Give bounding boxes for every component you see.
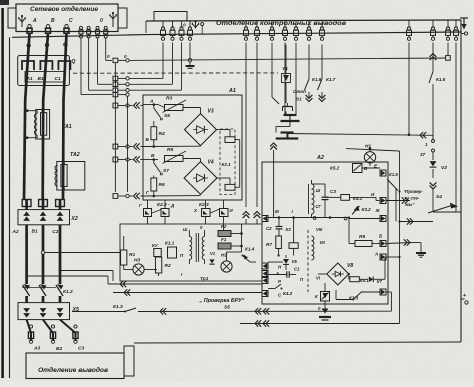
wire terminal 409 drop xyxy=(408,43,410,135)
A1 feed row А xyxy=(113,103,118,108)
switch К1.8 (left) xyxy=(308,45,310,80)
down-arrow terminal at top right edge xyxy=(463,18,465,28)
neutral link row y=84.3 xyxy=(113,82,118,86)
wire phase B X2->K1.2 xyxy=(42,225,45,284)
output compartment box (Отделение выводов) xyxy=(26,353,124,379)
block A2 outline xyxy=(262,162,388,304)
relay contact block К2.1 (dashed) xyxy=(220,129,235,195)
wire: outer frame bottom border xyxy=(134,342,461,343)
junction circle on phase B xyxy=(41,251,44,254)
resistor R3 xyxy=(165,105,184,111)
wire: outer frame top bus (root of control area) xyxy=(146,20,461,21)
control terminal 1-2 xyxy=(172,21,174,28)
chevron to М line xyxy=(273,150,275,162)
wire: outer frame right border xyxy=(460,20,462,342)
transformer Тр1 xyxy=(189,237,191,260)
resistor R6 xyxy=(153,176,155,179)
arrester right in net box xyxy=(112,12,114,14)
terminal phase C xyxy=(65,25,68,28)
wire H1/K1.5 net xyxy=(395,188,397,222)
switch К1.7 xyxy=(321,45,323,80)
wire taps to test block xyxy=(45,252,120,254)
wires A2 right side to riser xyxy=(386,256,400,258)
control terminal 2-4 xyxy=(284,21,286,28)
transformer TA1 xyxy=(36,110,50,140)
switch S7 xyxy=(153,160,155,164)
control terminal 3-3 xyxy=(447,20,449,28)
terminal block X2 xyxy=(18,210,70,225)
button КУ xyxy=(154,249,161,257)
transformer TA2 xyxy=(57,162,85,191)
fuse F2 xyxy=(218,231,231,237)
A1 feed row Б xyxy=(113,144,118,149)
transformer II winding xyxy=(312,236,314,260)
arrester F left in net box xyxy=(21,15,23,17)
fuse label box xyxy=(25,72,65,83)
wire: top bus raised tab xyxy=(154,12,187,22)
resistor R1 xyxy=(121,250,127,265)
net compartment box (Сетевое отделение) xyxy=(16,4,118,32)
control terminal 2-5 xyxy=(295,21,297,28)
wire terminal 456 down to S4 xyxy=(455,43,457,213)
neutral link row y=60.4 xyxy=(113,58,118,62)
terminal phase A xyxy=(28,25,31,28)
right mounting tab xyxy=(118,8,127,28)
wire R9 to ground xyxy=(386,243,412,244)
wire phase A X2->K1.2 xyxy=(25,225,28,284)
test block outline xyxy=(120,224,262,281)
fuse block outline xyxy=(18,56,70,86)
neutral link row y=78.4 xyxy=(113,76,118,80)
fuse element xyxy=(40,61,52,70)
button S1 xyxy=(285,83,287,104)
lamp H3 xyxy=(133,264,144,275)
contact K2.1 lower xyxy=(225,184,235,190)
bridge rectifier V3 xyxy=(185,114,217,146)
terminal block X5 xyxy=(18,303,70,320)
relay К5.1 xyxy=(348,273,350,275)
A1 feed row Г xyxy=(113,194,118,199)
contact K2.1 upper xyxy=(225,137,235,143)
control terminal 3-2 xyxy=(432,20,434,28)
terminal phase B xyxy=(46,25,49,28)
resistor R7 xyxy=(276,236,282,249)
connector М row xyxy=(262,216,268,222)
wire contacts to riser xyxy=(235,139,240,141)
resistor R2 xyxy=(155,257,161,273)
wire phase A vertical xyxy=(24,33,30,200)
neutral terminal 3 xyxy=(96,26,99,29)
control terminal 1-4 xyxy=(189,21,191,28)
bus wire y=284 xyxy=(108,283,262,285)
resistor R4 xyxy=(153,121,155,127)
node line y=217.5 xyxy=(268,217,349,219)
relay К3 coil xyxy=(289,243,298,249)
block A1 outline xyxy=(143,95,242,200)
scan edge artifact left xyxy=(1,8,4,378)
output wire xyxy=(60,320,76,341)
neutral terminal 2 xyxy=(87,26,90,29)
scan artifact top-left corner xyxy=(0,0,9,5)
wire: compartment boundary full-width bus xyxy=(12,32,461,37)
wire phase C X2->K1.2 xyxy=(59,225,62,284)
contactor K1.2 xyxy=(23,284,30,290)
control terminal 2-3 xyxy=(271,21,273,28)
wire: outer frame left border xyxy=(9,37,11,378)
fuse F1 xyxy=(218,243,231,249)
control terminal 2-1 xyxy=(245,21,247,28)
ground under А2 xyxy=(324,301,326,312)
bus wire K1.3 y=311 xyxy=(72,311,125,313)
plus output terminal xyxy=(461,298,465,300)
wire phase B vertical xyxy=(43,33,48,200)
left mounting tab xyxy=(8,8,16,28)
neutral vertical bus pair xyxy=(114,63,116,192)
resistor R5 xyxy=(143,159,158,161)
control terminal bus xyxy=(145,21,147,33)
output wire xyxy=(27,320,31,341)
wire V7 up to row А xyxy=(384,257,386,279)
fuse element xyxy=(58,61,70,70)
wire terminal 448 to bus end xyxy=(447,43,449,56)
A1 feed row В xyxy=(113,157,118,162)
neutral terminal 4 xyxy=(104,26,107,29)
lamp H2 xyxy=(221,261,232,272)
control drops from terminal row 2 xyxy=(245,43,247,208)
junction circles on phases xyxy=(27,44,30,47)
wire V4 right vertex to contact xyxy=(217,177,230,179)
diode V2 xyxy=(430,161,437,166)
main horizontal bus y=59.5 xyxy=(129,58,446,60)
terminal squares above X2 xyxy=(22,200,31,207)
output wire xyxy=(43,320,53,341)
transformer Тр2 winding in A2 xyxy=(308,184,310,214)
fuse element xyxy=(22,61,34,70)
bus y=221 with chevrons xyxy=(400,221,434,223)
wire rows to risers xyxy=(129,77,163,79)
wire V3 right vertex to contact xyxy=(217,129,231,131)
wire phase C vertical xyxy=(63,33,67,200)
junction dots xyxy=(25,275,28,278)
relay contact К1.1 xyxy=(168,247,177,258)
wire row Г to V4 bottom vertex xyxy=(143,195,201,197)
junction circle + earth on bus xyxy=(189,43,191,59)
wire to lamp bus L1 xyxy=(287,134,289,139)
output compartment tab xyxy=(124,346,134,376)
wires bridges to contacts xyxy=(147,200,149,209)
dashed wire from fuse block to Y1 xyxy=(73,72,278,74)
riser K3.3 row to bus 311 xyxy=(386,291,391,293)
bus end terminal square xyxy=(446,56,451,61)
bridge rectifier V4 xyxy=(184,162,217,195)
neutral link row y=94.6 xyxy=(113,92,118,96)
neutral link row y=90.2 xyxy=(113,88,118,92)
control terminal 3-1 xyxy=(408,20,410,28)
bus wire y=323.5 xyxy=(240,323,400,325)
control terminal 2-7 xyxy=(321,21,323,28)
control terminal 1-3 xyxy=(181,21,183,28)
wire neutral drops xyxy=(80,42,82,95)
control terminal 2-2 xyxy=(256,21,258,28)
wire row Б to V3 bottom vertex xyxy=(143,145,201,147)
bridge rectifier V8 xyxy=(327,263,349,285)
relay К4.1 xyxy=(341,195,350,201)
bus wire y=292.5 xyxy=(113,292,262,294)
diode V7 xyxy=(369,277,373,283)
wires inside test block xyxy=(231,233,242,235)
control terminal 3-4 xyxy=(455,20,457,28)
wire 433 drop with switch К1.6 xyxy=(432,43,434,72)
plug connector upper xyxy=(284,108,286,115)
control terminal 1-1 xyxy=(162,21,164,28)
wire lamp bus L2 + right riser xyxy=(346,149,400,151)
switch S6 xyxy=(153,105,155,109)
control terminal 2-6 xyxy=(308,21,310,28)
wire phase stubs into X2 xyxy=(25,200,28,210)
neutral terminal 1 xyxy=(80,26,83,29)
ground right xyxy=(416,252,426,254)
plug connector lower xyxy=(281,131,294,133)
